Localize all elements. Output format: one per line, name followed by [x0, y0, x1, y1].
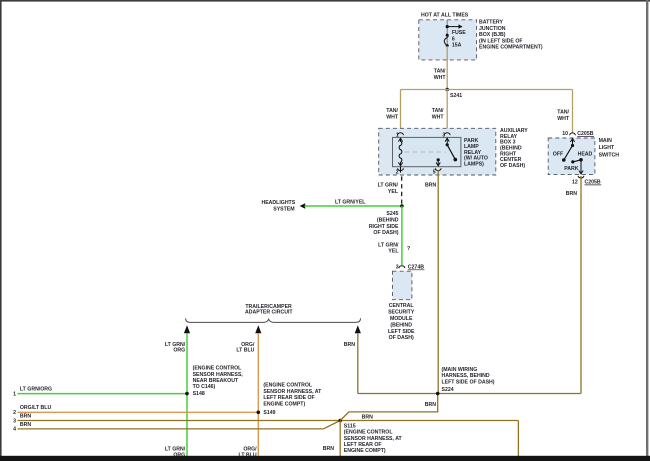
svg-text:HARNESS, BEHIND: HARNESS, BEHIND: [442, 373, 490, 379]
wire ORG/LT BLU vertical 2: [236, 333, 258, 458]
svg-text:LT BLU: LT BLU: [236, 348, 254, 354]
svg-text:BRN: BRN: [362, 415, 373, 421]
wire TAN/WHT drop to switch pin 10: [557, 90, 572, 133]
svg-text:TAN/: TAN/: [432, 108, 444, 114]
svg-text:TO C146): TO C146): [193, 384, 216, 390]
central security module: [388, 271, 415, 341]
svg-text:LEFT SIDE OF DASH): LEFT SIDE OF DASH): [442, 379, 495, 385]
svg-text:WHT: WHT: [386, 115, 399, 121]
svg-text:12: 12: [572, 180, 578, 186]
fuse F6 15A: [444, 30, 466, 49]
svg-text:MODULE: MODULE: [390, 316, 413, 322]
svg-text:(MAIN WIRING: (MAIN WIRING: [442, 367, 478, 373]
svg-text:6: 6: [452, 36, 455, 42]
svg-text:BOX (BJB): BOX (BJB): [479, 32, 506, 38]
svg-text:OF DASH): OF DASH): [500, 163, 525, 169]
svg-text:(BEHIND: (BEHIND: [390, 322, 412, 328]
svg-text:LT GRN/ORG: LT GRN/ORG: [20, 386, 52, 392]
svg-text:LEFT SIDE: LEFT SIDE: [388, 329, 415, 335]
svg-text:SECURITY: SECURITY: [388, 310, 415, 316]
connector C205B pin 12: [572, 176, 601, 186]
node S224: [436, 367, 495, 396]
svg-text:OF DASH): OF DASH): [373, 230, 398, 236]
svg-text:LT GRN/: LT GRN/: [378, 242, 399, 248]
main light switch: [548, 138, 619, 175]
arrow up wire 3: [355, 325, 361, 333]
pin 1 connector arc: [396, 132, 403, 138]
pin 3 connector arc: [442, 132, 450, 138]
wire TAN/WHT drop to relay pin 3: [432, 90, 448, 133]
svg-text:WHT: WHT: [557, 116, 570, 122]
wire LT GRN/YEL S245 to C274B: [378, 206, 410, 265]
svg-text:(IN LEFT SIDE OF: (IN LEFT SIDE OF: [479, 38, 523, 44]
svg-text:RIGHT SIDE: RIGHT SIDE: [369, 224, 399, 230]
svg-text:S245: S245: [386, 211, 398, 217]
svg-text:HOT AT ALL TIMES: HOT AT ALL TIMES: [421, 12, 469, 18]
wire BRN vertical 3: [344, 333, 358, 393]
wire BRN relay pin 5 to S224: [425, 170, 438, 393]
svg-text:ENGINE COMPT): ENGINE COMPT): [263, 401, 305, 407]
svg-text:LAMPS): LAMPS): [464, 161, 484, 167]
wire TAN/WHT bus: [401, 89, 573, 91]
svg-text:ENGINE COMPT): ENGINE COMPT): [344, 448, 386, 454]
svg-text:FUSE: FUSE: [452, 30, 466, 36]
relay: park lamp relay box: [393, 137, 488, 167]
svg-text:1: 1: [396, 132, 399, 138]
svg-text:LT GRN/: LT GRN/: [378, 183, 399, 189]
node S149: [257, 383, 323, 417]
node S115: [338, 419, 402, 455]
svg-text:MAIN: MAIN: [599, 138, 613, 144]
svg-text:LIGHT: LIGHT: [599, 145, 615, 151]
wire dashed LT GRN/YEL relay pin 2 to S245: [378, 176, 402, 204]
wire 4 horizontal BRN: [13, 421, 340, 433]
svg-text:4: 4: [13, 427, 16, 433]
relay linkage dashed: [405, 151, 447, 153]
svg-text:NEAR BREAKOUT: NEAR BREAKOUT: [193, 378, 239, 384]
node S245: [369, 204, 404, 236]
wire 3 horizontal BRN: [13, 414, 518, 457]
wire BRN S115 down: [323, 421, 340, 457]
connector C205B pin 10: [562, 131, 594, 137]
node S241: [445, 88, 462, 99]
svg-text:LEFT REAR SIDE OF: LEFT REAR SIDE OF: [263, 395, 314, 401]
svg-text:HEADLIGHTS: HEADLIGHTS: [261, 200, 295, 206]
wire TAN/WHT drop to relay pin 1: [386, 90, 400, 133]
svg-text:HEAD: HEAD: [578, 152, 593, 158]
relay switch contact: [436, 138, 457, 166]
svg-text:SENSOR HARNESS,: SENSOR HARNESS,: [193, 372, 244, 378]
connector C274B pin 3: [396, 265, 425, 271]
svg-text:3: 3: [396, 265, 399, 271]
svg-text:OFF: OFF: [553, 152, 563, 158]
trailer/camper adapter circuit brace: [186, 304, 361, 323]
svg-text:2: 2: [13, 410, 16, 416]
svg-text:S224: S224: [442, 387, 454, 393]
svg-text:BRN: BRN: [344, 342, 355, 348]
auxiliary relay box 3: [379, 128, 529, 175]
svg-text:(ENGINE CONTROL: (ENGINE CONTROL: [193, 366, 243, 372]
svg-text:2: 2: [396, 169, 399, 175]
svg-text:TAN/: TAN/: [386, 108, 398, 114]
svg-text:OF DASH): OF DASH): [389, 335, 414, 341]
svg-text:LEFT REAR OF: LEFT REAR OF: [344, 442, 382, 448]
arrow up wire 2: [255, 325, 261, 333]
svg-text:BRN: BRN: [323, 446, 334, 452]
svg-text:BRN: BRN: [20, 422, 31, 428]
svg-text:S115: S115: [344, 423, 356, 429]
node: bus tap dot with feed arrow: [446, 24, 463, 28]
svg-text:1: 1: [13, 392, 16, 398]
wire BRN switch pin 12 down to S224 bus: [566, 176, 581, 394]
wire BRN S224 bus horizontal: [358, 393, 581, 395]
svg-text:S241: S241: [450, 93, 462, 99]
svg-text:(ENGINE CONTROL: (ENGINE CONTROL: [344, 430, 394, 436]
svg-text:LT GRN/YEL: LT GRN/YEL: [335, 200, 366, 206]
svg-text:S148: S148: [193, 391, 205, 397]
svg-text:TAN/: TAN/: [557, 110, 569, 116]
svg-text:SYSTEM: SYSTEM: [273, 206, 294, 212]
svg-text:BRN: BRN: [425, 402, 436, 408]
svg-text:(BEHIND: (BEHIND: [377, 218, 399, 224]
wire LT GRN/YEL to headlights system: [261, 200, 401, 213]
svg-text:3: 3: [442, 132, 445, 138]
svg-text:(ENGINE CONTROL: (ENGINE CONTROL: [263, 383, 313, 389]
svg-text:TAN/: TAN/: [434, 69, 446, 75]
svg-text:5: 5: [433, 169, 436, 175]
svg-text:SENSOR HARNESS, AT: SENSOR HARNESS, AT: [344, 436, 403, 442]
pin 2 connector arc: [396, 167, 404, 176]
svg-text:S149: S149: [263, 410, 275, 416]
wire gray feed inside BJB: [446, 20, 448, 46]
wire 2 horizontal ORG/LT BLU: [13, 405, 258, 416]
svg-text:YEL: YEL: [388, 189, 399, 195]
svg-text:BRN: BRN: [425, 183, 436, 189]
svg-text:WHT: WHT: [432, 115, 445, 121]
wire 1 horizontal LT GRN/ORG: [13, 386, 187, 397]
wire LT GRN/ORG vertical 1: [165, 333, 187, 458]
svg-text:3: 3: [13, 418, 16, 424]
wire TAN/WHT fuse to S241: [434, 46, 448, 90]
svg-text:SWITCH: SWITCH: [599, 152, 620, 158]
pin 5 connector arc: [433, 168, 441, 175]
svg-text:ENGINE COMPARTMENT): ENGINE COMPARTMENT): [479, 45, 543, 51]
svg-text:?: ?: [407, 246, 410, 252]
svg-text:BRN: BRN: [20, 414, 31, 420]
svg-text:SENSOR HARNESS, AT: SENSOR HARNESS, AT: [263, 389, 322, 395]
arrow up wire 1: [184, 325, 190, 333]
svg-text:15A: 15A: [452, 43, 462, 49]
svg-text:YEL: YEL: [388, 249, 399, 255]
svg-text:ORG: ORG: [173, 348, 185, 354]
node S148: [185, 366, 243, 397]
svg-text:ORG/LT BLU: ORG/LT BLU: [20, 405, 52, 411]
svg-text:WHT: WHT: [434, 75, 447, 81]
wire BRN S115 to S224: [340, 394, 438, 421]
svg-text:CENTRAL: CENTRAL: [389, 303, 415, 309]
svg-text:BATTERY: BATTERY: [479, 20, 503, 26]
relay coil: [398, 138, 402, 166]
svg-text:ADAPTER CIRCUIT: ADAPTER CIRCUIT: [245, 310, 293, 316]
battery junction box BJB: [419, 12, 543, 60]
svg-text:JUNCTION: JUNCTION: [479, 26, 506, 32]
switch internals: [553, 139, 593, 174]
svg-text:PARK: PARK: [564, 166, 579, 172]
svg-text:10: 10: [562, 131, 568, 137]
svg-text:BRN: BRN: [566, 191, 577, 197]
